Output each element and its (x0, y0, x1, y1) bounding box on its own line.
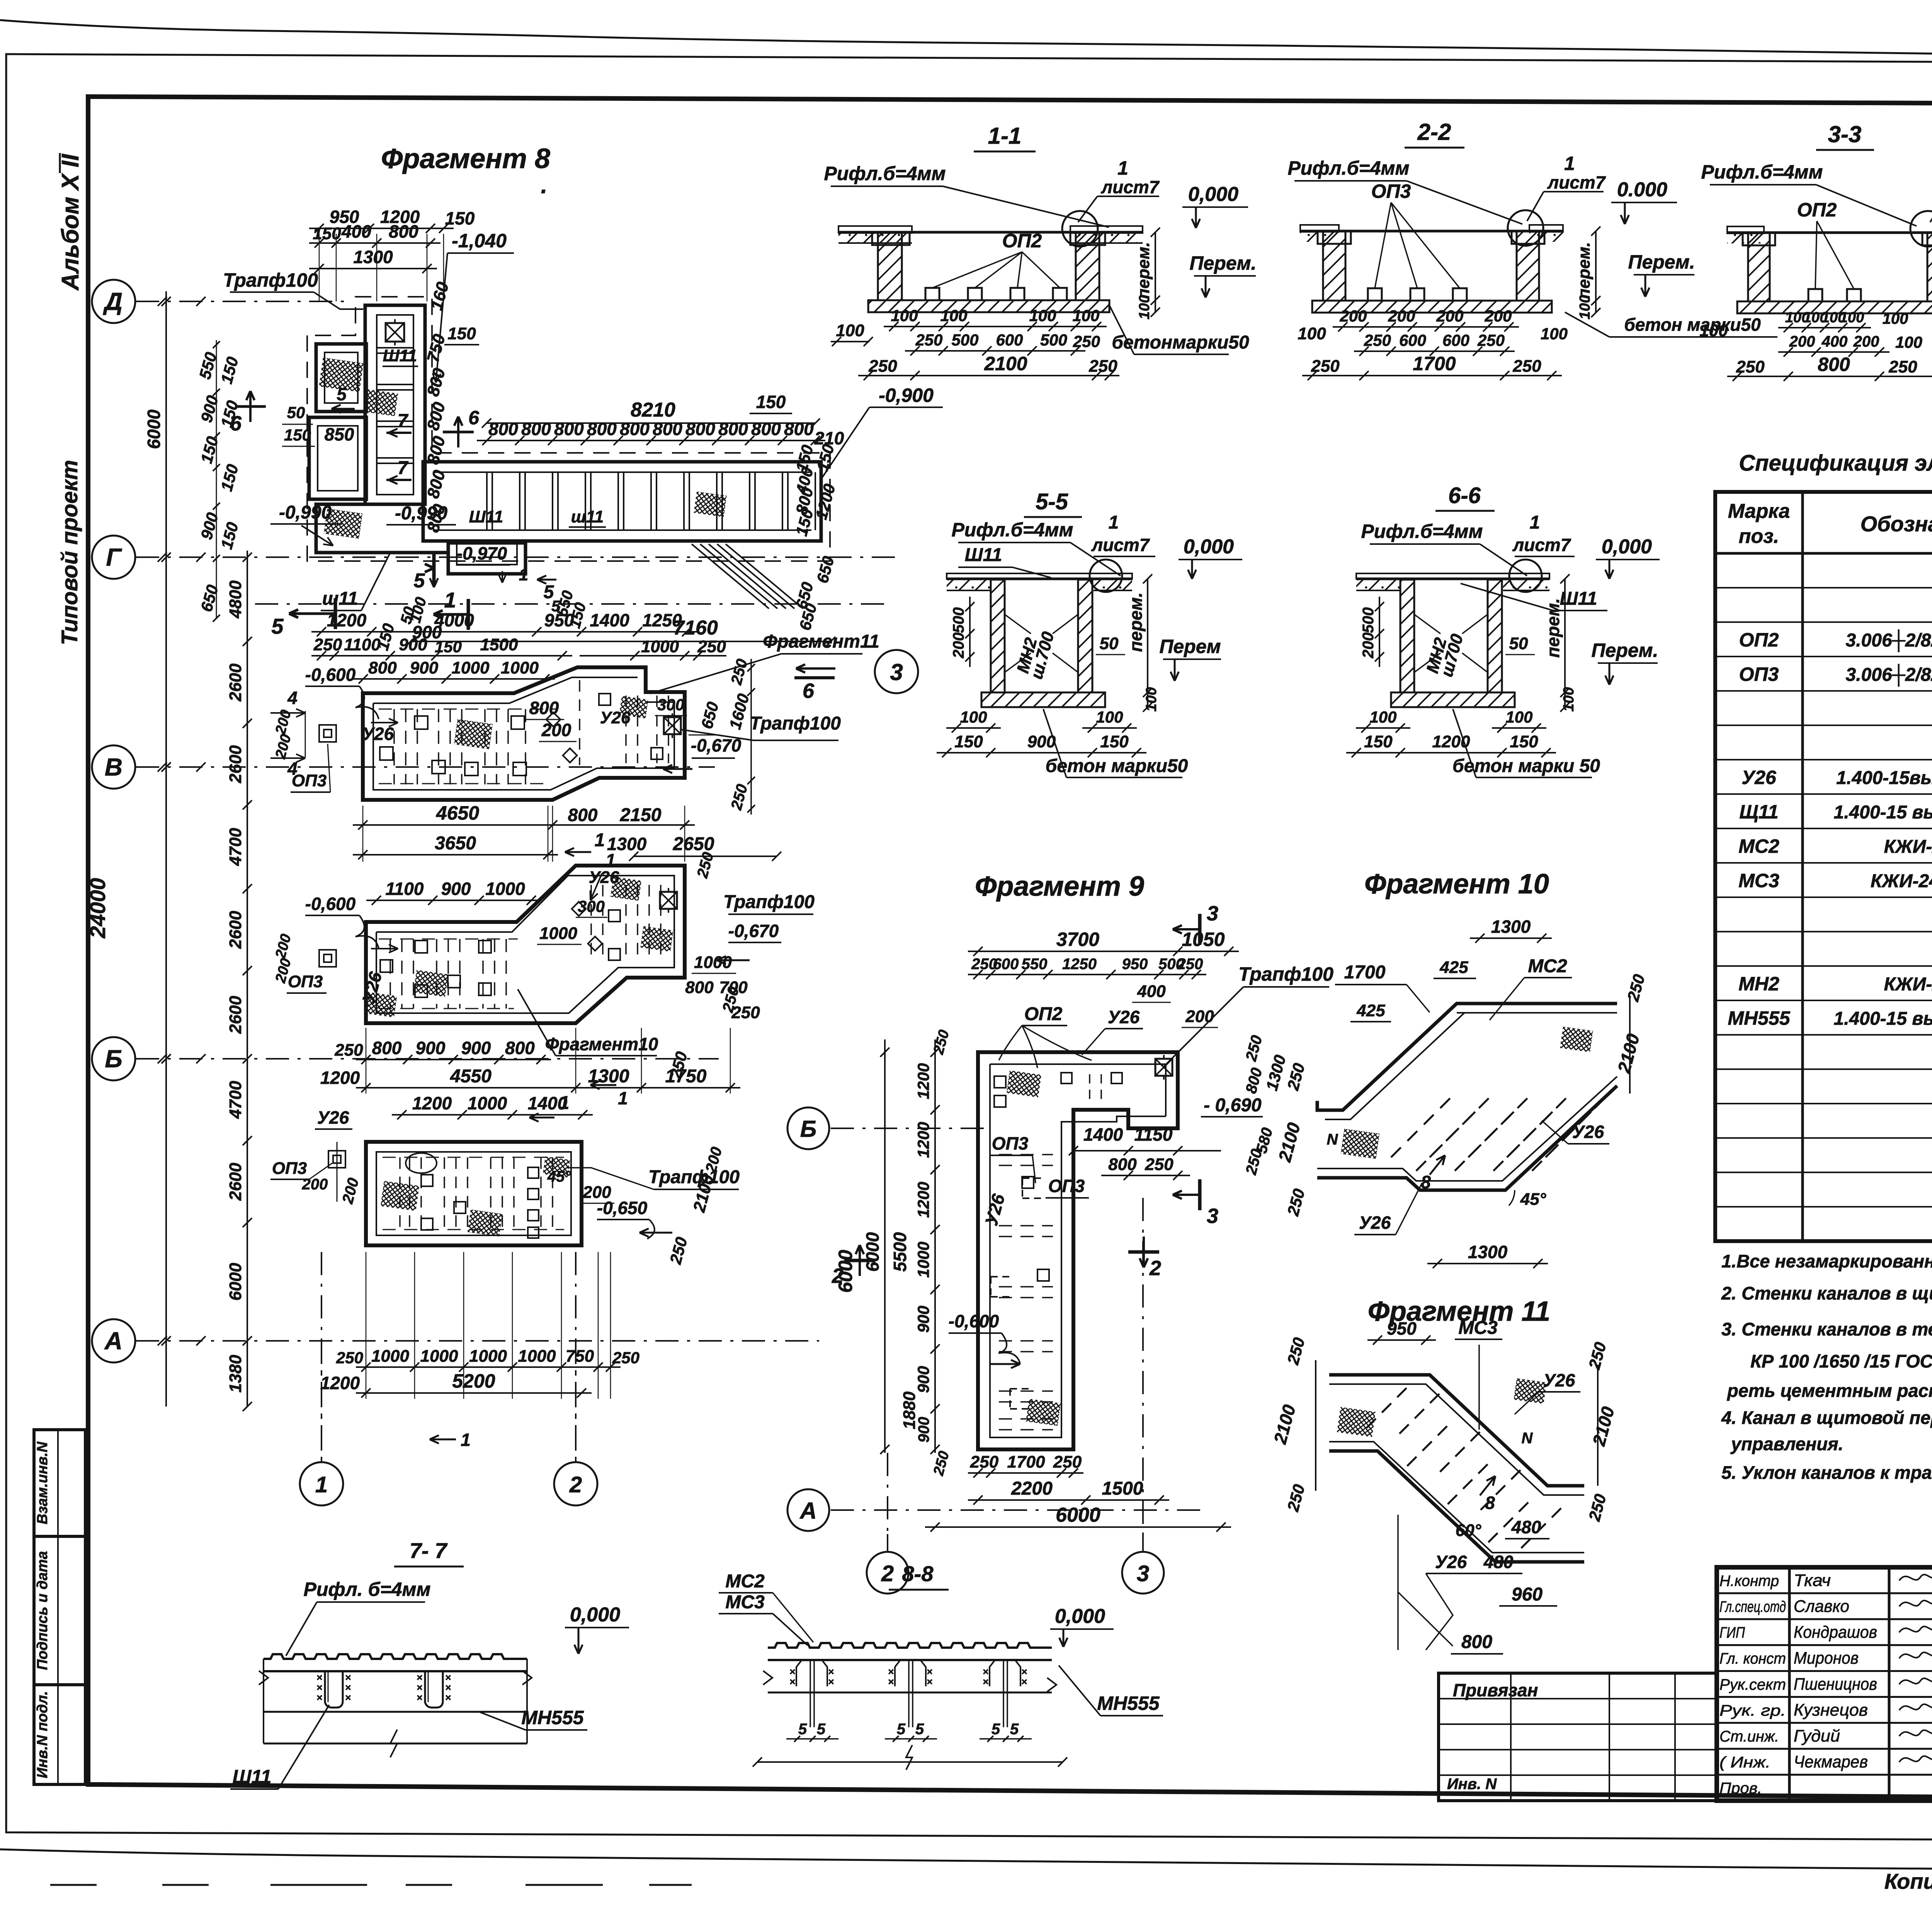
svg-text:А: А (104, 1327, 122, 1355)
svg-text:-0,990: -0,990 (279, 502, 332, 523)
svg-text:( Инж.: ( Инж. (1719, 1754, 1770, 1771)
svg-text:1200: 1200 (320, 1068, 360, 1088)
svg-text:3.006┼2/82вып.1 -2: 3.006┼2/82вып.1 -2 (1846, 664, 1932, 687)
svg-text:900: 900 (399, 635, 427, 654)
svg-text:У26: У26 (600, 708, 631, 727)
svg-text:8: 8 (1485, 1493, 1495, 1513)
svg-text:Трапф100: Трапф100 (648, 1167, 740, 1187)
svg-text:800: 800 (587, 419, 617, 439)
svg-text:КР 100 /1650 /15 ГОСТ 530- 80: КР 100 /1650 /15 ГОСТ 530- 80 на раствор… (1750, 1351, 1932, 1371)
svg-text:1100: 1100 (386, 879, 424, 899)
svg-text:5-5: 5-5 (1036, 489, 1068, 514)
svg-text:У26: У26 (317, 1107, 349, 1128)
svg-text:500: 500 (950, 607, 967, 633)
svg-text:800: 800 (368, 658, 397, 677)
svg-text:1: 1 (605, 850, 616, 870)
svg-text:Гл.спец.отд: Гл.спец.отд (1719, 1598, 1786, 1615)
svg-text:1250: 1250 (642, 610, 682, 630)
svg-text:У26: У26 (1543, 1370, 1575, 1390)
svg-text:250: 250 (313, 635, 342, 654)
svg-text:250: 250 (1477, 331, 1505, 349)
svg-text:2: 2 (1149, 1257, 1161, 1280)
svg-text:Чекмарев: Чекмарев (1794, 1752, 1868, 1771)
svg-text:1: 1 (1109, 512, 1119, 533)
svg-text:ОП2: ОП2 (1024, 1004, 1063, 1024)
svg-text:5500: 5500 (890, 1232, 910, 1272)
svg-text:Трапф100: Трапф100 (1238, 963, 1333, 985)
svg-text:1100: 1100 (344, 635, 381, 654)
svg-text:800: 800 (529, 698, 559, 718)
svg-text:200: 200 (541, 720, 571, 740)
svg-text:Инв. N: Инв. N (1447, 1776, 1497, 1793)
svg-text:1000: 1000 (468, 1093, 507, 1113)
svg-text:150: 150 (447, 324, 476, 343)
svg-text:ГИП: ГИП (1719, 1624, 1745, 1641)
svg-text:800: 800 (620, 419, 650, 439)
svg-text:Рук. гр.: Рук. гр. (1719, 1702, 1786, 1719)
svg-text:6000: 6000 (862, 1232, 883, 1272)
svg-text:100: 100 (1029, 306, 1056, 325)
svg-text:Трапф100: Трапф100 (750, 713, 841, 734)
svg-text:2200: 2200 (1011, 1478, 1053, 1499)
svg-text:-0,900: -0,900 (879, 384, 934, 406)
svg-text:Кузнецов: Кузнецов (1794, 1701, 1868, 1720)
svg-text:1000: 1000 (539, 924, 577, 943)
svg-text:МС2: МС2 (725, 1571, 765, 1592)
svg-text:3650: 3650 (435, 833, 476, 854)
svg-text:6-6: 6-6 (1448, 483, 1481, 508)
svg-text:3.006┼2/82вып.1 -2: 3.006┼2/82вып.1 -2 (1846, 629, 1932, 652)
svg-text:1: 1 (315, 1472, 328, 1497)
svg-text:N: N (1522, 1430, 1533, 1447)
svg-text:100: 100 (1143, 687, 1160, 711)
svg-text:50: 50 (287, 403, 305, 422)
svg-text:1200: 1200 (412, 1093, 452, 1113)
svg-text:800: 800 (505, 1038, 535, 1058)
svg-text:550: 550 (1022, 956, 1048, 973)
svg-text:250: 250 (697, 637, 726, 656)
svg-text:2600: 2600 (226, 745, 245, 783)
svg-text:ОП3: ОП3 (1048, 1176, 1085, 1196)
svg-text:3. Стенки каналов в тепловом: 3. Стенки каналов в тепловом пункте выпо… (1721, 1319, 1932, 1339)
svg-text:-0,600: -0,600 (305, 665, 356, 685)
svg-text:- 0,690: - 0,690 (1204, 1095, 1262, 1116)
svg-text:750: 750 (566, 1347, 594, 1366)
svg-text:Гл. конст: Гл. конст (1719, 1650, 1786, 1667)
svg-text:1000: 1000 (469, 1347, 507, 1366)
svg-text:1000: 1000 (452, 658, 490, 677)
svg-text:150: 150 (1364, 732, 1393, 751)
svg-text:2100: 2100 (984, 353, 1027, 374)
svg-text:1150: 1150 (1134, 1124, 1173, 1145)
svg-text:МС3: МС3 (1738, 870, 1779, 891)
svg-text:100: 100 (1096, 708, 1123, 726)
svg-text:Марка: Марка (1728, 500, 1790, 522)
svg-text:В: В (105, 753, 122, 781)
svg-text:6: 6 (230, 412, 242, 435)
svg-text:800: 800 (1818, 354, 1850, 375)
svg-text:1: 1 (618, 1088, 628, 1108)
svg-text:250: 250 (868, 357, 897, 376)
svg-text:Фрагмент 10: Фрагмент 10 (1364, 869, 1549, 900)
svg-text:1000: 1000 (501, 658, 539, 677)
svg-text:60°: 60° (1456, 1521, 1481, 1540)
svg-text:У26: У26 (1742, 767, 1777, 788)
svg-text:Ш11: Ш11 (233, 1766, 272, 1788)
svg-text:2: 2 (881, 1561, 894, 1586)
svg-text:Обозначение: Обозначение (1861, 512, 1932, 536)
svg-text:1: 1 (519, 565, 528, 584)
svg-text:800: 800 (784, 419, 814, 439)
svg-text:150: 150 (445, 208, 475, 228)
svg-text:800: 800 (554, 419, 584, 439)
svg-text:800: 800 (1461, 1632, 1492, 1652)
svg-text:4650: 4650 (436, 802, 479, 824)
svg-text:1700: 1700 (1007, 1453, 1045, 1471)
svg-text:2650: 2650 (673, 834, 714, 854)
svg-text:×: × (417, 1692, 422, 1703)
svg-text:1200: 1200 (914, 1063, 932, 1099)
svg-text:перем.: перем. (1134, 242, 1153, 299)
svg-text:1200: 1200 (320, 1373, 360, 1393)
svg-text:4800: 4800 (226, 580, 245, 619)
svg-text:×: × (828, 1676, 834, 1687)
svg-text:-1,040: -1,040 (452, 230, 507, 252)
svg-text:4: 4 (287, 688, 298, 708)
svg-text:50: 50 (1509, 634, 1528, 653)
svg-text:900: 900 (416, 1038, 446, 1058)
svg-text:1000: 1000 (914, 1242, 932, 1277)
svg-text:6000: 6000 (144, 409, 164, 449)
svg-text:Г: Г (106, 543, 122, 571)
svg-text:Миронов: Миронов (1794, 1649, 1859, 1668)
svg-text:-0,670: -0,670 (728, 921, 779, 941)
svg-text:5: 5 (817, 1721, 826, 1738)
svg-text:950: 950 (544, 610, 574, 630)
svg-text:250: 250 (1088, 357, 1117, 376)
svg-text:Н.контр: Н.контр (1719, 1572, 1779, 1589)
svg-text:1000: 1000 (518, 1347, 556, 1366)
svg-text:800: 800 (521, 419, 551, 439)
svg-text:1: 1 (595, 830, 605, 850)
svg-text:МН555: МН555 (1097, 1692, 1160, 1714)
svg-text:900: 900 (441, 879, 471, 899)
svg-text:150: 150 (284, 426, 311, 444)
svg-text:управления.: управления. (1730, 1434, 1844, 1454)
svg-text:100: 100 (1840, 310, 1864, 326)
svg-text:Гудий: Гудий (1794, 1726, 1840, 1745)
svg-text:2600: 2600 (226, 663, 245, 702)
svg-text:Перем.: Перем. (1190, 252, 1257, 274)
svg-text:Щ11: Щ11 (1739, 801, 1778, 823)
svg-text:Рифл.б=4мм: Рифл.б=4мм (1361, 520, 1483, 542)
svg-text:1300: 1300 (353, 247, 393, 267)
svg-text:Пшеницнов: Пшеницнов (1794, 1675, 1877, 1694)
svg-text:перем.: перем. (1543, 598, 1563, 658)
svg-text:400: 400 (341, 221, 371, 242)
svg-text:400: 400 (1137, 982, 1166, 1001)
svg-text:1050: 1050 (1182, 929, 1225, 950)
svg-text:перем.: перем. (1575, 242, 1594, 299)
svg-text:×: × (345, 1692, 351, 1703)
svg-text:Кондрашов: Кондрашов (1794, 1623, 1877, 1642)
svg-text:5: 5 (337, 384, 347, 404)
svg-text:500: 500 (1360, 607, 1377, 633)
svg-text:ОП2: ОП2 (1739, 629, 1779, 651)
svg-text:960: 960 (1512, 1584, 1543, 1605)
svg-text:150: 150 (313, 224, 341, 243)
svg-text:1: 1 (1564, 153, 1575, 174)
svg-text:лист7: лист7 (1512, 535, 1571, 555)
svg-text:1.Все незамаркированные в ка: 1.Все незамаркированные в каналах опорны… (1721, 1251, 1932, 1271)
svg-text:0,000: 0,000 (1188, 183, 1238, 206)
svg-text:1500: 1500 (480, 635, 518, 654)
svg-text:1000: 1000 (694, 953, 732, 972)
svg-text:Ш11: Ш11 (469, 507, 503, 526)
svg-text:Рифл. б=4мм: Рифл. б=4мм (304, 1578, 431, 1600)
svg-text:45°: 45° (547, 1168, 571, 1185)
svg-text:2600: 2600 (226, 1163, 245, 1201)
svg-text:250: 250 (1145, 1155, 1173, 1174)
svg-text:Типовой проект: Типовой проект (57, 460, 82, 645)
svg-text:0,000: 0,000 (1602, 536, 1652, 558)
svg-text:4550: 4550 (450, 1066, 492, 1087)
svg-text:У26: У26 (1108, 1007, 1140, 1027)
svg-text:5: 5 (992, 1721, 1000, 1738)
svg-text:1250: 1250 (1062, 956, 1097, 973)
svg-text:Пров.: Пров. (1719, 1780, 1762, 1797)
svg-text:200: 200 (1339, 307, 1367, 325)
svg-text:Инв.N подл.: Инв.N подл. (34, 1691, 51, 1778)
svg-text:Фрагмент 8: Фрагмент 8 (381, 143, 550, 174)
svg-text:100: 100 (940, 306, 967, 325)
svg-text:3-3: 3-3 (1828, 121, 1862, 147)
svg-text:200: 200 (1360, 633, 1377, 659)
svg-text:МН555: МН555 (1728, 1007, 1790, 1029)
svg-text:МС3: МС3 (725, 1592, 765, 1612)
svg-text:ОП3: ОП3 (272, 1159, 307, 1178)
svg-text:100: 100 (1505, 708, 1532, 726)
svg-text:×: × (789, 1676, 795, 1687)
svg-text:900: 900 (914, 1306, 932, 1333)
svg-text:150: 150 (1510, 732, 1538, 751)
svg-text:1: 1 (1530, 512, 1540, 533)
svg-text:Альбом Х II: Альбом Х II (57, 153, 84, 291)
svg-text:2150: 2150 (620, 805, 662, 825)
svg-text:1200: 1200 (914, 1122, 932, 1158)
svg-text:реть цементным раствором соста: реть цементным раствором состава 1:2,сна… (1726, 1380, 1932, 1401)
svg-text:950: 950 (1122, 956, 1148, 973)
svg-text:1300: 1300 (1491, 917, 1531, 937)
svg-text:КЖИ-24.00-01: КЖИ-24.00-01 (1871, 871, 1932, 891)
svg-text:КЖИ-24.00: КЖИ-24.00 (1884, 837, 1932, 857)
svg-text:А: А (799, 1498, 816, 1524)
svg-text:600: 600 (1399, 331, 1426, 349)
svg-text:250: 250 (334, 1041, 363, 1060)
svg-text:1380: 1380 (226, 1355, 245, 1393)
svg-text:600: 600 (1442, 331, 1469, 349)
svg-text:Ст.инж.: Ст.инж. (1719, 1728, 1779, 1745)
svg-text:1: 1 (444, 588, 456, 612)
svg-text:8: 8 (1421, 1172, 1431, 1192)
svg-text:500: 500 (1040, 331, 1067, 349)
svg-text:1: 1 (1117, 157, 1128, 179)
svg-text:800: 800 (568, 805, 598, 825)
svg-text:У26: У26 (1359, 1213, 1391, 1233)
svg-text:800: 800 (488, 419, 518, 439)
svg-text:1.400-15вып.1 005-40: 1.400-15вып.1 005-40 (1836, 768, 1932, 788)
svg-text:1200: 1200 (327, 610, 367, 630)
svg-text:У26: У26 (589, 868, 619, 887)
svg-text:×: × (1021, 1676, 1027, 1687)
svg-text:-0,990: -0,990 (395, 503, 447, 524)
svg-text:1880: 1880 (900, 1391, 919, 1429)
svg-text:100: 100 (960, 708, 987, 726)
svg-text:Б: Б (800, 1116, 816, 1142)
svg-text:900: 900 (461, 1038, 491, 1058)
svg-text:45°: 45° (1520, 1190, 1546, 1209)
svg-text:лист7: лист7 (1091, 535, 1150, 555)
svg-text:100: 100 (1136, 295, 1153, 319)
svg-text:Трапф100: Трапф100 (223, 269, 318, 291)
svg-text:МС3: МС3 (1458, 1318, 1498, 1338)
svg-text:бетон марки50: бетон марки50 (1624, 315, 1761, 335)
svg-text:150: 150 (1100, 732, 1129, 751)
svg-text:ш11: ш11 (571, 507, 604, 526)
svg-text:7: 7 (398, 458, 409, 478)
svg-text:600: 600 (996, 331, 1023, 349)
svg-text:ОП3: ОП3 (292, 771, 327, 790)
svg-text:×: × (445, 1692, 451, 1703)
svg-text:бетон марки50: бетон марки50 (1046, 756, 1188, 776)
svg-text:-0,600: -0,600 (949, 1311, 999, 1331)
svg-text:У26: У26 (1572, 1122, 1604, 1142)
svg-text:Рук.сект: Рук.сект (1719, 1676, 1786, 1693)
svg-text:5: 5 (271, 614, 284, 638)
svg-text:1: 1 (559, 1093, 570, 1113)
svg-text:Взам.инв.N: Взам.инв.N (34, 1441, 51, 1524)
svg-text:3: 3 (890, 659, 903, 685)
svg-text:100: 100 (1298, 324, 1326, 343)
svg-text:6000: 6000 (1056, 1504, 1100, 1526)
svg-text:100: 100 (1577, 295, 1593, 319)
svg-text:900: 900 (410, 658, 439, 677)
svg-text:8-8: 8-8 (902, 1561, 934, 1586)
svg-text:Б: Б (105, 1045, 122, 1073)
svg-text:5: 5 (897, 1721, 906, 1738)
svg-text:ш11: ш11 (322, 589, 358, 609)
svg-text:500: 500 (951, 331, 978, 349)
svg-text:800: 800 (685, 419, 715, 439)
svg-text:850: 850 (325, 424, 354, 444)
svg-text:4700: 4700 (226, 828, 245, 866)
svg-text:800: 800 (389, 221, 418, 242)
svg-text:250: 250 (1177, 956, 1203, 973)
svg-text:Рифл.б=4мм: Рифл.б=4мм (1287, 157, 1409, 179)
svg-text:3: 3 (1207, 902, 1218, 925)
svg-text:У26: У26 (362, 724, 394, 744)
svg-text:800: 800 (685, 978, 714, 997)
svg-text:480: 480 (1483, 1552, 1514, 1572)
svg-text:250: 250 (1512, 357, 1541, 376)
svg-text:МС2: МС2 (1738, 835, 1779, 857)
svg-text:лист7: лист7 (1101, 177, 1160, 197)
svg-text:Привязан: Привязан (1453, 1680, 1538, 1700)
svg-text:1400: 1400 (590, 610, 629, 630)
svg-text:250: 250 (612, 1349, 639, 1367)
svg-text:ОП2: ОП2 (1797, 199, 1837, 221)
svg-text:Ш11: Ш11 (965, 545, 1002, 565)
svg-text:.: . (541, 172, 548, 198)
svg-text:1400: 1400 (1083, 1124, 1123, 1145)
svg-text:1-1: 1-1 (988, 123, 1022, 149)
svg-text:5: 5 (915, 1721, 924, 1738)
svg-text:250: 250 (1736, 357, 1765, 376)
svg-text:5: 5 (1010, 1721, 1019, 1738)
svg-text:150: 150 (756, 392, 786, 412)
svg-text:1.400-15 вып.1 005-72: 1.400-15 вып.1 005-72 (1834, 802, 1932, 823)
svg-text:0,000: 0,000 (1055, 1605, 1105, 1628)
svg-text:1: 1 (461, 1430, 471, 1450)
svg-text:300: 300 (657, 696, 684, 714)
svg-text:×: × (927, 1676, 932, 1687)
svg-text:950: 950 (1387, 1318, 1417, 1339)
svg-text:1000: 1000 (485, 879, 525, 899)
svg-text:100: 100 (1883, 310, 1908, 327)
svg-text:250: 250 (336, 1349, 363, 1367)
svg-text:-0,650: -0,650 (597, 1198, 648, 1218)
svg-text:Спецификация элементов располо: Спецификация элементов расположенных на … (1739, 451, 1932, 476)
svg-text:400: 400 (1821, 333, 1848, 350)
svg-text:480: 480 (1511, 1517, 1541, 1537)
svg-text:МС2: МС2 (1528, 956, 1567, 976)
svg-text:6000: 6000 (226, 1263, 245, 1301)
svg-text:100: 100 (1369, 708, 1396, 726)
svg-text:Рифл.б=4мм: Рифл.б=4мм (1701, 161, 1823, 183)
svg-text:250: 250 (1053, 1453, 1082, 1471)
svg-text:100: 100 (891, 306, 918, 325)
svg-text:0,000: 0,000 (1184, 536, 1234, 558)
svg-text:МН555: МН555 (521, 1707, 584, 1728)
svg-text:Перем.: Перем. (1628, 251, 1695, 273)
svg-text:Славко: Славко (1794, 1597, 1849, 1616)
svg-text:800: 800 (372, 1038, 402, 1058)
svg-text:Перем: Перем (1159, 636, 1221, 657)
svg-text:ОП3: ОП3 (992, 1133, 1029, 1153)
svg-text:-0,970: -0,970 (457, 543, 507, 563)
svg-text:200: 200 (1853, 333, 1879, 350)
svg-text:2600: 2600 (226, 996, 245, 1034)
svg-text:3700: 3700 (1056, 929, 1099, 950)
svg-text:800: 800 (751, 419, 781, 439)
svg-text:900: 900 (914, 1366, 932, 1393)
svg-text:2600: 2600 (226, 911, 245, 949)
svg-text:250: 250 (915, 331, 942, 349)
svg-text:Ткач: Ткач (1794, 1571, 1831, 1590)
svg-text:100: 100 (1541, 325, 1568, 343)
svg-text:200: 200 (1436, 307, 1463, 325)
svg-text:200: 200 (1789, 333, 1815, 350)
svg-text:250: 250 (1073, 332, 1100, 350)
svg-text:×: × (316, 1692, 322, 1703)
svg-text:-0,670: -0,670 (691, 735, 742, 755)
svg-text:5200: 5200 (452, 1370, 495, 1392)
svg-text:0,000: 0,000 (570, 1604, 620, 1626)
svg-text:Трапф100: Трапф100 (723, 892, 815, 912)
svg-text:250: 250 (970, 1453, 999, 1471)
svg-text:1700: 1700 (1413, 353, 1456, 374)
svg-text:2: 2 (832, 1264, 844, 1288)
